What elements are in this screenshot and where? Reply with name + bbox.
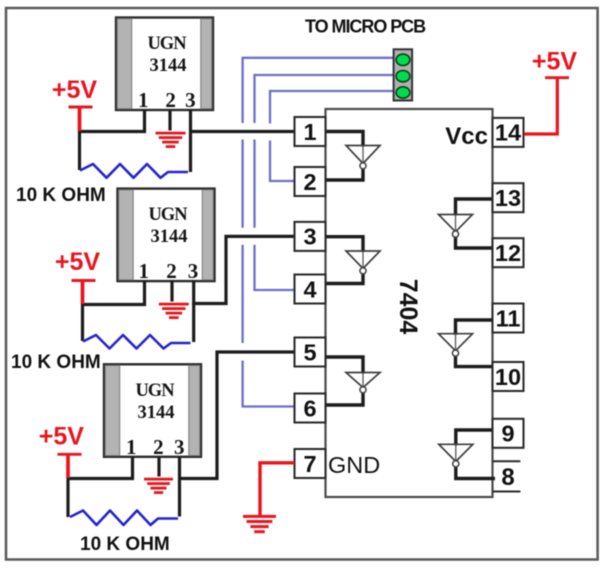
svg-text:10: 10 [495, 364, 521, 390]
svg-text:13: 13 [495, 185, 521, 211]
svg-text:2: 2 [303, 169, 316, 195]
svg-text:1: 1 [138, 88, 149, 112]
svg-text:12: 12 [495, 240, 521, 266]
svg-text:3144: 3144 [151, 227, 188, 247]
svg-text:11: 11 [496, 305, 521, 331]
svg-text:+5V: +5V [52, 76, 98, 104]
svg-text:GND: GND [328, 452, 380, 478]
svg-text:10 K OHM: 10 K OHM [16, 185, 106, 206]
svg-text:8: 8 [501, 464, 514, 491]
svg-text:UGN: UGN [148, 205, 188, 225]
svg-text:Vcc: Vcc [445, 123, 488, 150]
svg-text:7: 7 [303, 451, 316, 477]
svg-text:5: 5 [303, 339, 316, 365]
svg-text:9: 9 [501, 421, 514, 447]
svg-text:7404: 7404 [394, 279, 422, 335]
svg-text:1: 1 [303, 119, 316, 145]
svg-text:10 K OHM: 10 K OHM [11, 352, 101, 373]
svg-text:3: 3 [174, 435, 185, 459]
svg-text:10 K OHM: 10 K OHM [80, 534, 170, 555]
svg-text:3: 3 [303, 224, 316, 250]
svg-text:UGN: UGN [135, 381, 175, 401]
svg-text:6: 6 [303, 395, 316, 421]
svg-text:+5V: +5V [39, 423, 85, 451]
svg-text:3: 3 [185, 88, 196, 112]
svg-text:2: 2 [165, 88, 176, 112]
svg-text:+5V: +5V [55, 248, 101, 276]
svg-text:3144: 3144 [138, 403, 175, 423]
svg-text:2: 2 [153, 435, 164, 459]
svg-text:1: 1 [126, 435, 137, 459]
svg-text:3: 3 [188, 259, 199, 283]
svg-text:1: 1 [138, 259, 149, 283]
svg-text:TO MICRO PCB: TO MICRO PCB [305, 17, 426, 37]
svg-text:4: 4 [303, 276, 316, 302]
svg-text:2: 2 [166, 259, 177, 283]
svg-text:14: 14 [495, 120, 521, 146]
svg-text:+5V: +5V [532, 48, 578, 76]
svg-text:UGN: UGN [147, 34, 187, 54]
svg-text:3144: 3144 [150, 56, 187, 76]
